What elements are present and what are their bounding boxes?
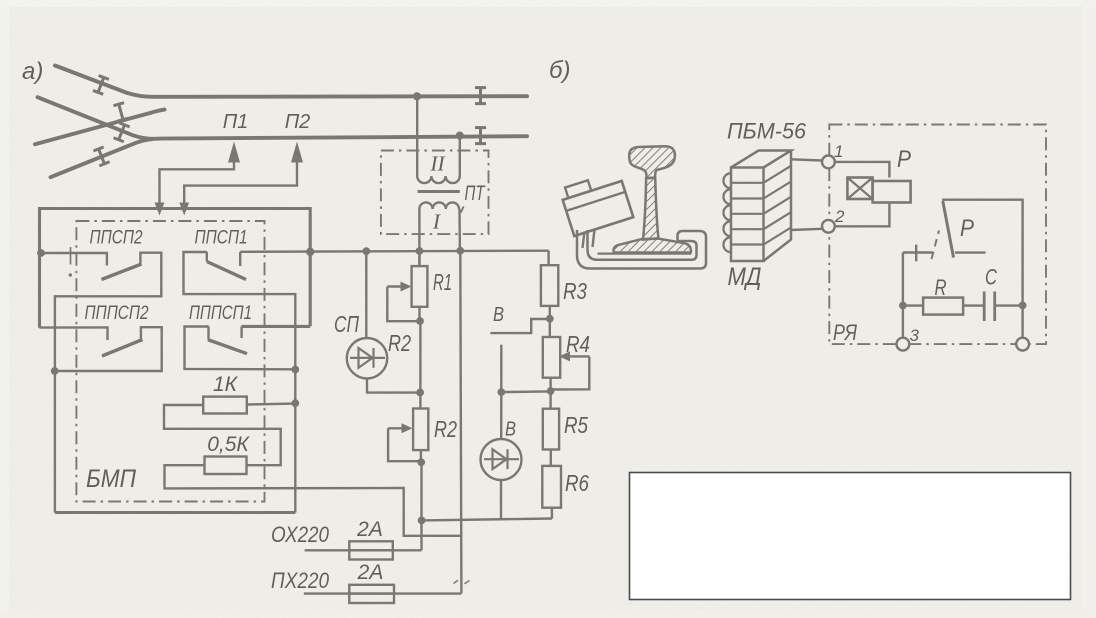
BMP block outer frame top bbox=[40, 209, 311, 328]
BMP dash-dot boundary box bbox=[76, 221, 264, 502]
tap P2: arrow at rail and wire down to BMP box bbox=[291, 142, 303, 163]
clamp plate under rail foot bbox=[598, 253, 692, 255]
MD lamination layers bbox=[731, 182, 764, 184]
wire SP bottom to R1 column bbox=[367, 378, 420, 392]
contact PPSP2: blade bbox=[102, 264, 142, 280]
clamp bracket outer bbox=[577, 230, 706, 269]
wire R1 bottom to R2 bbox=[419, 321, 421, 409]
MD coil loops bbox=[723, 173, 731, 252]
contact PPSP2: left fixed stub bbox=[106, 252, 108, 266]
winding II (to rails) bbox=[416, 97, 418, 177]
terminal 1 bbox=[822, 156, 835, 169]
wire V terminal step to R3/R4 junction bbox=[490, 319, 547, 333]
resistor R bbox=[903, 304, 923, 306]
contact PPPSP1: right fixed stub bbox=[240, 326, 242, 338]
insulated joint on lower diagonal rail bbox=[93, 147, 109, 166]
transformer core bar bbox=[418, 190, 460, 193]
terminal 2 bbox=[822, 220, 835, 233]
terminal 3 bbox=[897, 338, 910, 351]
collector wire to lamp V and R6 bbox=[422, 519, 552, 521]
row-1 bus out to the right bbox=[240, 251, 548, 252]
rail bottom (straight track lower rail) bbox=[38, 97, 528, 139]
lamp V (circle with diode) bbox=[500, 392, 502, 438]
R4 wiper arrow from right bbox=[567, 355, 590, 357]
wire MD to terminal 1 bbox=[791, 159, 822, 160]
MD pedal box top face bbox=[731, 151, 791, 168]
RYa dash-dot enclosure bbox=[829, 125, 1046, 345]
row-2 bus right, corner up to outer frame bbox=[242, 325, 311, 328]
MD pedal box front face bbox=[731, 168, 764, 262]
rail head (hatched) bbox=[629, 146, 675, 178]
rail top (straight track upper rail) bbox=[55, 66, 527, 97]
capacitor C bbox=[983, 292, 986, 322]
contact PPPSP2: left fixed stub bbox=[106, 326, 108, 340]
contact fixed lead left with anvil tick bbox=[903, 251, 933, 253]
wire terminal 1 to relay coil bbox=[835, 162, 890, 178]
turnout branch rail (ends free) bbox=[35, 110, 165, 145]
sensor box on rail web bbox=[559, 170, 633, 236]
contact PPPSP1: left terminal with loop down bbox=[185, 327, 296, 370]
contact PPSP2: right stub and terminal loop (right,down,left,down) bbox=[55, 253, 161, 513]
insulated joint on bottom rail bbox=[475, 128, 486, 144]
R1 wiper arrow and tail bbox=[387, 285, 403, 287]
resistor R5 bbox=[543, 409, 559, 450]
PT dash-dot box bbox=[381, 151, 489, 235]
lamp SP (circle with diode) bbox=[347, 338, 387, 378]
rheostat R4 bbox=[543, 337, 560, 378]
row-1 bus left bbox=[40, 252, 107, 254]
wire 0,5K left lead down and long exit line bbox=[165, 465, 462, 536]
white caption box bbox=[630, 473, 1071, 600]
rail web (hatched) bbox=[643, 178, 658, 240]
contact fixed lead right bbox=[955, 251, 986, 253]
contact PPSP1: pivot stub bbox=[206, 252, 208, 261]
resistor R6 bbox=[542, 466, 561, 508]
sensor mounting leg bbox=[583, 230, 595, 249]
fuse 2A (OX220) bbox=[305, 549, 422, 551]
contact P blade bbox=[943, 201, 954, 258]
R2 wiper arrow and tail bbox=[388, 427, 404, 429]
wire R2 bottom down to fuse line bbox=[420, 462, 422, 550]
resistor R3 bbox=[547, 251, 549, 266]
rheostat R2 bbox=[413, 409, 428, 451]
insulated joint on lower rail diagonal bbox=[114, 123, 130, 142]
clamp bracket inner bbox=[588, 230, 697, 260]
contact PPPSP2: blade bbox=[102, 340, 143, 357]
stray dash-dot tick on row-1 bus bbox=[70, 247, 72, 265]
MD pedal box side face bbox=[764, 151, 792, 262]
tap P1: arrow at rail and wire down to BMP box bbox=[228, 142, 240, 163]
turnout lower diagonal rail bbox=[51, 139, 153, 177]
rail foot (hatched) bbox=[613, 239, 690, 253]
rheostat R1 bbox=[418, 251, 420, 266]
contact PPSP1: left terminal with loop down bbox=[184, 252, 296, 513]
BMP block bottom wire (U path) bbox=[55, 511, 295, 514]
fuse 2A (PX220) bbox=[304, 592, 462, 594]
wire 1K left lead loop to 0,5K bbox=[164, 405, 281, 465]
resistor 0,5K bbox=[205, 457, 247, 475]
small scan marks near PX220 junction bbox=[454, 580, 470, 584]
wire R4 bottom junction to lamp V column bbox=[501, 390, 550, 393]
contact P of relay: frame top and right side bbox=[942, 200, 1023, 306]
wire relay coil to terminal 2 bbox=[835, 203, 890, 227]
insulated joint on top rail bbox=[475, 88, 486, 104]
wire MD to terminal 2 bbox=[791, 229, 822, 230]
winding I (to bus) bbox=[419, 202, 459, 209]
resistor 1K bbox=[203, 397, 247, 414]
wire bus right down (long vertical) bbox=[460, 251, 461, 594]
insulated joint on upper diagonal bbox=[93, 75, 109, 94]
wire down to bottom-right terminal bbox=[1021, 305, 1023, 337]
contact PPPSP1: blade bbox=[208, 340, 247, 354]
relay coil P (box with X) bbox=[847, 178, 872, 200]
contact P dashed link mark bbox=[932, 231, 940, 260]
contact PPSP1: right fixed stub bbox=[239, 252, 241, 266]
contact PPSP1: blade bbox=[207, 262, 246, 280]
insulated joint on branch rail bbox=[113, 103, 128, 121]
contact PPPSP1: pivot stub bbox=[207, 327, 209, 340]
contact PPPSP2: right stub and terminal loop bbox=[55, 327, 162, 371]
bottom-right terminal bbox=[1016, 338, 1029, 351]
wire bus to SP lamp bbox=[365, 251, 367, 338]
wire left branch down to terminal 3 bbox=[902, 253, 904, 338]
lamp V open stub up bbox=[500, 345, 502, 392]
row-2 bus left bbox=[40, 326, 108, 329]
